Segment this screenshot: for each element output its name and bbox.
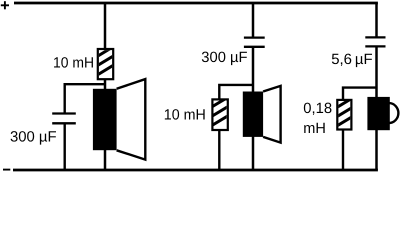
+ terminal <box>1 1 9 9</box>
- terminal <box>3 169 10 171</box>
wire: C1 to bottom rail <box>63 123 65 170</box>
inductor L1 10 mH <box>94 44 118 79</box>
wire: woofer to bottom rail <box>104 150 107 170</box>
wire: top rail to C3 <box>375 3 378 37</box>
capacitor C2 300 µF <box>244 38 265 47</box>
wire: L3 to bottom rail <box>342 130 344 171</box>
inductor L2 10 mH <box>209 95 233 131</box>
svg-text:10 mH: 10 mH <box>53 55 94 71</box>
wire: C2 to midrange <box>252 47 255 93</box>
svg-text:mH: mH <box>303 121 326 137</box>
wire: L1 to woofer junction <box>104 79 107 90</box>
wire: midrange to bottom rail <box>252 137 255 171</box>
svg-text:300 µF: 300 µF <box>201 50 247 66</box>
wire: L2 to bottom rail <box>218 130 220 170</box>
wire: top rail to L1 <box>104 3 107 50</box>
wire: C3 to tweeter <box>375 46 378 98</box>
top rail wire (+) <box>14 2 378 5</box>
wire: top rail to C2 <box>252 3 255 38</box>
svg-text:5,6 µF: 5,6 µF <box>331 52 372 68</box>
inductor L3 0,18 mH <box>334 95 358 130</box>
capacitor C1 300 µF <box>52 114 76 124</box>
wire: tweeter to bottom rail <box>375 130 378 170</box>
wire: junction to L3 (horizontal + vertical) <box>343 88 377 101</box>
wire: junction to L2 (horizontal + vertical) <box>219 85 253 101</box>
wire: junction to C1 (horizontal + vertical) <box>65 84 105 113</box>
capacitor C3 5,6 µF <box>365 37 385 46</box>
svg-text:10 mH: 10 mH <box>164 108 206 124</box>
bottom rail wire (-) <box>13 169 378 172</box>
loudspeaker tweeter <box>367 97 398 130</box>
loudspeaker midrange <box>243 86 281 143</box>
loudspeaker woofer <box>93 79 145 160</box>
svg-text:0,18: 0,18 <box>303 101 332 117</box>
svg-text:300 µF: 300 µF <box>10 129 57 145</box>
